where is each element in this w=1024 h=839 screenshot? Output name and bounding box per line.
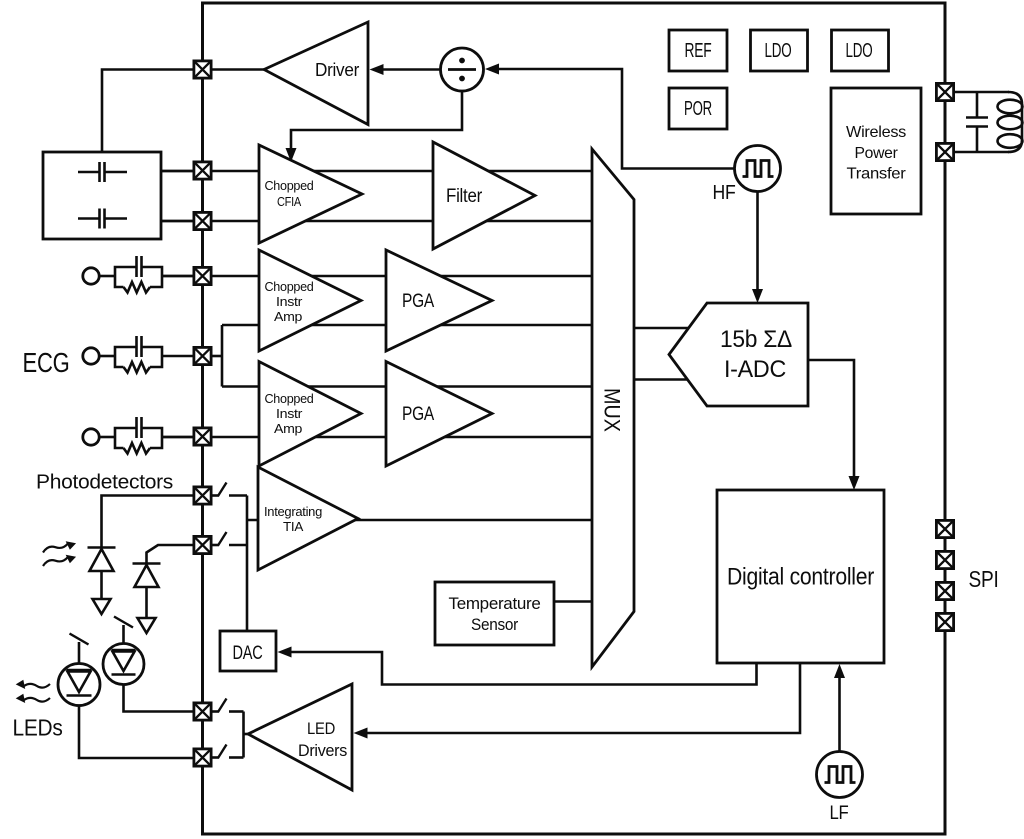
svg-text:Wireless: Wireless [846,124,906,141]
svg-text:LF: LF [830,803,849,824]
svg-text:Transfer: Transfer [847,166,907,183]
svg-text:Chopped: Chopped [265,179,314,193]
svg-text:Instr: Instr [276,295,302,309]
svg-text:Digital controller: Digital controller [727,564,874,591]
svg-text:Amp: Amp [274,421,302,436]
svg-text:TIA: TIA [283,519,304,534]
svg-text:Driver: Driver [315,60,359,80]
svg-text:LED: LED [307,719,335,738]
svg-text:POR: POR [684,98,712,120]
svg-text:Power: Power [855,145,899,162]
svg-text:Sensor: Sensor [471,616,519,634]
svg-text:Drivers: Drivers [298,741,347,760]
svg-text:LDO: LDO [846,40,873,62]
svg-text:I-ADC: I-ADC [724,356,786,383]
svg-text:HF: HF [713,182,736,204]
svg-text:LEDs: LEDs [13,715,63,741]
svg-text:Temperature: Temperature [449,595,541,613]
svg-text:Chopped: Chopped [265,280,314,294]
svg-text:Photodetectors: Photodetectors [36,471,173,494]
svg-text:Amp: Amp [274,309,302,324]
svg-text:SPI: SPI [969,566,999,592]
svg-text:Instr: Instr [276,407,302,421]
svg-text:DAC: DAC [233,642,263,664]
svg-text:Integrating: Integrating [264,504,322,519]
svg-text:PGA: PGA [402,403,434,425]
svg-text:LDO: LDO [765,40,792,62]
svg-text:MUX: MUX [600,388,625,432]
svg-text:PGA: PGA [402,290,434,312]
svg-text:REF: REF [685,40,712,62]
svg-text:ECG: ECG [23,347,70,378]
svg-text:Chopped: Chopped [265,392,314,406]
svg-text:Filter: Filter [446,186,483,207]
svg-text:CFIA: CFIA [277,195,302,209]
svg-text:15b ΣΔ: 15b ΣΔ [720,326,792,353]
